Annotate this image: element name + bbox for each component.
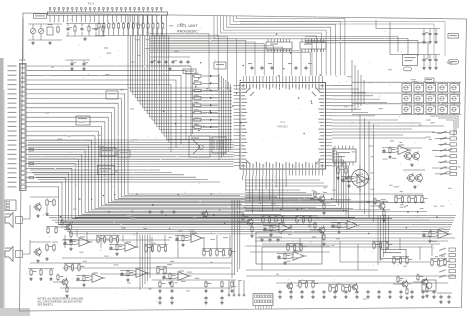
ground [204,289,208,293]
wire resistor column rail [192,74,194,134]
wire band mid-left 2 [30,170,220,182]
transistor Q12 [421,278,429,287]
wire band below MCU [245,190,348,211]
resistor R105 [71,264,73,272]
resistor R103 [164,267,166,275]
ground [158,301,162,305]
wire cluster [57,226,66,228]
ground [250,234,254,238]
resistor R100 [342,285,349,293]
connector J6 dual-row [253,294,273,306]
wire horiz bottom long [30,262,232,264]
IC U1 left pins [234,85,248,166]
wire row rail [156,266,167,268]
diode [210,119,213,121]
ground [170,301,174,305]
wire frame-left drop [22,18,24,60]
transistor Q6 [33,247,41,256]
ground [269,233,273,237]
capacitor C3 [94,27,100,31]
resistor R15 [57,26,59,34]
ground [413,185,417,189]
resistor R98 [329,285,336,293]
wire grid verticals [352,60,364,112]
ground [69,247,73,251]
resistor R88 [421,196,428,204]
resistor R7 [127,22,129,30]
resistor R34 [116,244,122,252]
resistor R114 [300,244,307,252]
ground [82,283,86,287]
resistor R19 [193,73,203,77]
svg-text:RRM30C: RRM30C [277,125,288,129]
ground [70,67,74,71]
wire cluster [393,283,402,285]
resistor R90 [437,259,439,267]
capacitor C20 [331,224,334,228]
resistor R79 [302,216,304,224]
wire cluster [310,229,319,231]
ground [45,212,49,216]
capacitor C38 [388,290,391,294]
ground [344,295,348,299]
op-amp U5 [345,220,361,230]
capacitor C21 [341,178,344,182]
diode [210,111,213,113]
op-amp U7 [291,251,307,261]
resistor R70 [209,249,211,257]
ground [421,295,425,299]
capacitor C61 [447,295,450,299]
resistor R3 [108,22,110,30]
ground [425,294,429,298]
op-amp U8 [176,271,192,281]
resistor R93 [399,257,401,265]
IC U2 box [333,149,356,162]
wires from J1 down [50,15,161,22]
resistor R64 [116,236,118,244]
resistor R43 [429,231,435,239]
transistor Q5 [33,202,41,211]
resistor R83 [386,242,393,250]
capacitor C36 [366,290,369,294]
ground [377,295,381,299]
ground [410,295,414,299]
wire band lower-right extra [255,238,455,247]
box bottom-right [380,250,406,259]
ground [399,295,403,299]
ground [344,176,348,180]
capacitor C56 [304,66,307,70]
resistor R76 [275,216,282,224]
resistor R24 [193,109,203,113]
capacitor C47 [70,62,76,66]
wires trimmer cluster [28,23,62,25]
connector J1 bar [48,12,168,15]
resistor network top-left [47,27,53,35]
switch SW7 [414,93,424,104]
capacitor C39 [399,290,402,294]
resistor R89 [431,259,438,267]
ground [337,230,341,234]
speaker SP1 [5,213,13,228]
resistor R52 [323,234,325,242]
capacitor C58 [268,238,271,242]
ground [204,301,208,305]
resistor R38 [348,176,354,184]
resistor R1 [98,22,100,30]
resistor R82 [379,242,381,250]
resistor R14 [162,22,164,30]
wire band under MCU upper [245,180,328,186]
ground [439,300,443,304]
resistor R94 [406,257,413,265]
ground [355,295,359,299]
resistor R69 [203,249,210,257]
wire horiz bottom extra [62,239,170,241]
resistor R48 [251,226,253,234]
capacitor C45 [204,296,207,300]
resistor R42 [127,270,133,278]
transistor Q13 [401,280,409,289]
wire bottom strip rail [276,282,448,284]
transistor Q8 [246,218,254,227]
svg-text:RR003030C: RR003030C [177,30,198,34]
trimmer VR1 [30,28,35,33]
resistor R55 [417,274,423,282]
resistor R16 [74,25,76,33]
ground [69,239,73,243]
trimmer VR2 [38,28,43,33]
wire [203,75,218,77]
resistor R67 [158,245,165,253]
wire bus under J1 [95,35,166,37]
scattered part labels 2 [65,23,460,289]
resistor R63 [110,236,117,244]
capacitor C17 [109,246,112,250]
wires cluster B [66,23,105,25]
resistor R78 [296,216,303,224]
scan smudge bottom-left [0,308,30,316]
capacitor C14 [428,58,431,62]
transistor Q1 [403,151,411,161]
resistor R41 [83,275,89,283]
ground [336,176,340,180]
capacitor C52 [250,66,253,70]
IC U1 right pins [318,85,332,166]
transistor Q16 [351,283,358,292]
diode [210,97,213,99]
capacitor C48 [82,62,88,66]
labels above MCU [248,63,252,64]
capacitor C43 [158,296,161,300]
scan edge shading left [0,58,4,316]
ground [220,289,224,293]
resistor R31 [46,244,53,252]
capacitor C29 [289,290,292,294]
capacitor C31 [311,290,314,294]
diode [210,89,213,91]
svg-text:PL-A: PL-A [88,2,94,6]
resistor R18 [102,25,104,33]
ground [347,184,351,188]
op-amp U2 [123,242,139,252]
wire cluster [53,281,62,283]
svg-text:IC1: IC1 [280,120,285,124]
ground [388,155,392,159]
capacitor C60 [439,295,442,299]
resistor R45 [61,219,67,227]
resistor R80 [309,216,316,224]
crystal circuit box X1 [189,136,210,157]
resistor R60 [66,286,68,294]
resistor R112 [287,244,294,252]
ground [45,257,49,261]
switch SW13 [426,104,436,115]
wire cluster [370,205,379,207]
capacitor C53 [260,66,263,70]
resistor R86 [408,196,415,204]
wire bottom-left rail [28,268,54,270]
ground [322,295,326,299]
ground [283,261,287,265]
ground [333,295,337,299]
resistor R92 [393,257,400,265]
wire verticals right bundle low [378,215,388,265]
ground [48,41,52,45]
ground [39,277,43,281]
ground [168,67,172,71]
wire cluster [76,275,90,277]
ground [115,252,119,256]
switch SW15 [450,104,460,115]
resistor R44 [389,147,395,155]
switch SW12 [414,104,424,115]
wires right of MCU horizontals [332,120,444,138]
ground [230,289,234,293]
wire row rail [430,258,447,260]
switch SW10 [450,93,460,104]
resistor R72 [222,249,224,257]
capacitor C51 [172,210,175,214]
pin column bottom-center [228,280,245,296]
wire bundle pre-MCU [219,74,231,160]
resistor R47 [242,214,248,222]
connector J4 right edge [439,248,455,279]
capacitor C9 [186,60,189,64]
terminal box SP2 [16,251,23,258]
label box top-left [34,14,47,18]
resistor R96 [305,281,307,289]
diode [210,75,213,77]
label box mid-left [98,166,115,175]
capacitor C12 [434,32,437,36]
resistor R115 [30,269,36,277]
op-amp U1 [77,237,93,247]
wires J6 [256,306,272,309]
resistor R4 [113,22,115,30]
resistor R21 [193,87,203,92]
wire [203,97,218,99]
wire bus band middle2 [46,216,456,234]
transistor Q15 [286,282,293,291]
capacitor C26 [422,233,425,237]
label box staircase C [100,148,116,156]
ground [278,295,282,299]
ground [220,301,224,305]
ground [49,277,53,281]
wire cluster [175,235,189,237]
connector J2 pins and labels [8,64,26,189]
resistor R53 [374,198,380,206]
wire corners below grid [430,116,458,136]
wire cluster [341,176,355,178]
switch SW5 [450,82,460,93]
oval label right [404,67,412,71]
transistor Q4 [414,173,422,183]
capacitor C46 [220,296,223,300]
capacitor C41 [421,290,424,294]
resistor R25 [193,117,203,122]
capacitor C10 [422,32,428,36]
op-amp U4 [277,223,293,233]
label oval TP B [448,60,459,65]
wire band to MCU left [28,140,234,166]
IC U1 corner angled labels [246,88,321,165]
connector J3 right edge [432,131,457,176]
wire grid rails [352,81,461,83]
resistor R97 [312,281,319,289]
wire cluster [382,147,396,149]
wire [203,104,218,106]
resistor R54 [383,210,385,218]
capacitor C32 [322,290,325,294]
wire row rail [144,244,168,246]
ground [410,163,414,167]
transistor Q11 [378,202,386,211]
resistor R110 [221,281,223,289]
capacitor C44 [170,296,173,300]
wires audio2 [30,241,58,243]
resistor R56 [426,286,428,294]
resistor R81 [373,242,380,250]
resistor R17 [88,25,90,33]
capacitor C54 [270,66,273,70]
transistor Q3 [406,173,414,183]
capacitor C34 [344,290,347,294]
ground [82,67,86,71]
transistor Q14 [61,278,69,287]
wire MCU bottom fan [243,176,287,214]
ground [65,294,69,298]
switch SW8 [426,93,436,104]
resistor R10 [142,22,144,30]
wire cluster [109,244,123,246]
ground [422,40,426,44]
ground [388,295,392,299]
wire row rail [96,235,120,237]
wire verticals right-mid [360,115,374,222]
switch SW3 [426,82,436,93]
ground [322,211,326,215]
resistor R50 [323,203,325,211]
resistor R62 [103,236,105,244]
wire cluster [310,198,319,200]
label box top-center [183,69,196,74]
wire right B [390,22,421,55]
resistor R77 [281,216,283,224]
resistor R65 [145,245,152,253]
capacitor C7 [171,60,177,64]
capacitor C50 [160,210,163,214]
capacitor C59 [276,238,279,242]
switch SW9 [438,93,448,104]
wire cluster [263,225,277,227]
capacitor C8 [179,60,182,64]
ground [300,295,304,299]
wire cluster [331,222,345,224]
wire cluster [238,221,247,223]
wire bundle topleft verticals [128,15,232,142]
resistor R5 [118,22,120,30]
resistor R29 [46,199,53,207]
switch SW6 [402,93,412,104]
resistor R99 [335,285,337,293]
capacitor C42 [432,290,435,294]
wire [203,112,218,114]
connector J2 body [20,64,27,191]
capacitor C30 [300,290,303,294]
switch SW2 [414,82,424,93]
label box staircase B [106,91,118,99]
label box TP A [448,34,459,39]
terminal box SP1 [16,217,23,224]
resistor R73 [229,249,236,257]
resistor R61 [97,236,104,244]
wires MCU right out [332,86,387,116]
box far bottom-right [422,280,436,291]
transistor Q9 [318,195,326,204]
resistor R49 [314,191,320,199]
IC U1 body [240,83,326,170]
wire row rail [202,248,232,250]
box above grid [425,78,434,83]
resistor R116 [40,269,42,277]
resistor R9 [137,22,139,30]
capacitor C49 [148,210,151,214]
capacitor C5 [157,60,160,64]
resistor R104 [65,264,72,272]
ground [36,214,40,218]
capacitor C24 [76,277,79,281]
resistor R20 [193,80,203,85]
svg-text:SEE SHEET-2: SEE SHEET-2 [38,304,54,307]
capacitor C6 [164,60,167,64]
connector J1 pins [49,8,162,12]
capacitor C33 [333,290,336,294]
resistor R84 [395,196,402,204]
diode [210,104,213,106]
resistor R87 [414,196,416,204]
capacitor C11 [428,32,431,36]
box SW right [403,55,418,66]
resistor R13 [157,22,159,30]
ground [432,295,436,299]
wire cluster [162,273,176,275]
resistor R91 [444,259,451,267]
resistor R101 [348,285,350,293]
resistor R6 [122,22,124,30]
